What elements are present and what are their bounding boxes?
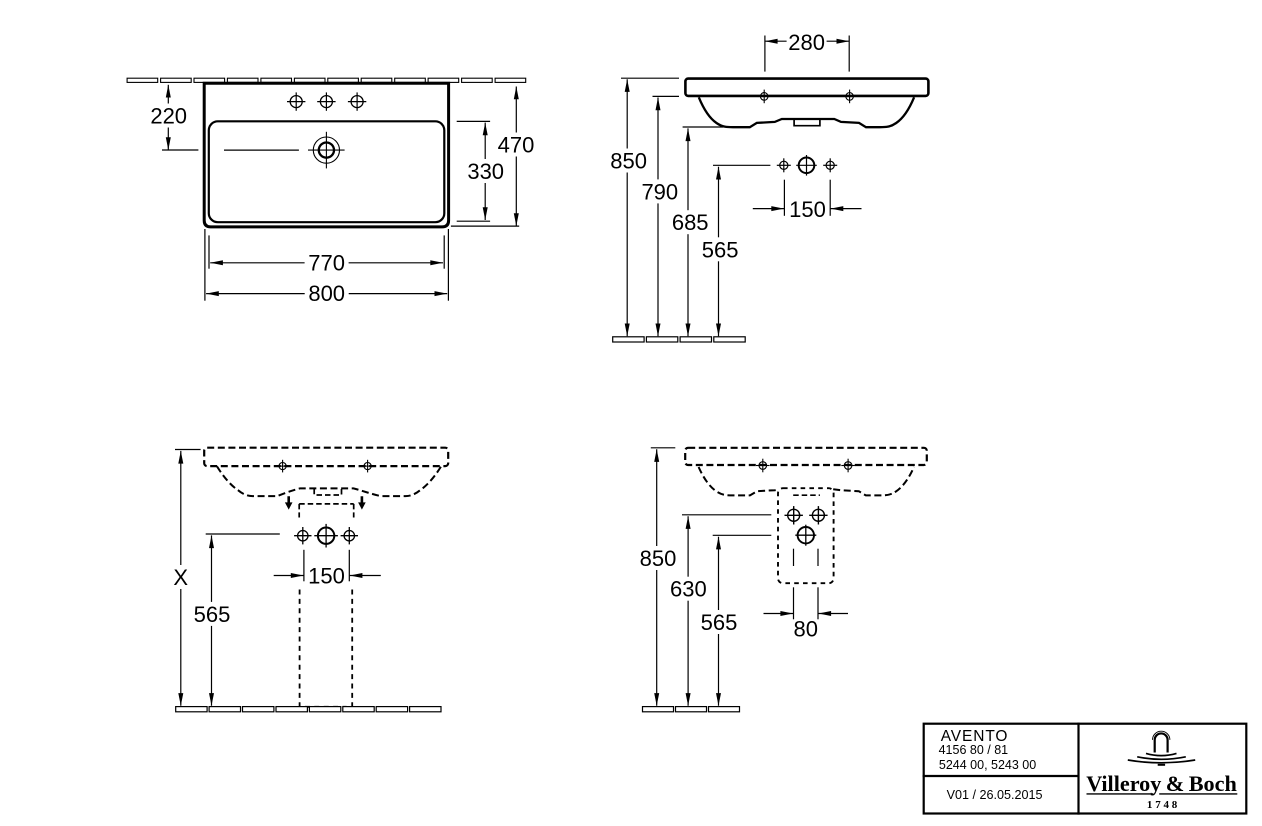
wall hatch tiles (plan view) <box>127 78 526 82</box>
svg-text:630: 630 <box>670 577 707 602</box>
siphon supply hole right <box>809 506 827 524</box>
svg-text:150: 150 <box>789 197 826 222</box>
supply hole left (side view) <box>777 158 791 172</box>
svg-text:470: 470 <box>498 133 535 158</box>
logo faucet icon <box>1153 731 1170 752</box>
siphon cover dashed <box>778 488 834 583</box>
dimension 80 <box>764 549 849 642</box>
svg-text:Villeroy & Boch: Villeroy & Boch <box>1086 771 1237 796</box>
svg-text:770: 770 <box>308 250 345 275</box>
svg-text:X: X <box>173 565 188 590</box>
wall fixing hole right (siphon view) <box>841 459 855 473</box>
floor hatch tiles (side view) <box>613 337 746 342</box>
drain pipe hole (side view) <box>796 155 817 176</box>
svg-text:280: 280 <box>788 30 825 55</box>
wall fixing hole right (side view) <box>843 90 857 104</box>
bowl underside dashed (siphon view) <box>699 467 914 495</box>
dimension 770 <box>209 235 444 275</box>
logo water ripples <box>1128 753 1195 764</box>
pedestal body dashed <box>300 590 353 708</box>
svg-text:4156 80 / 81: 4156 80 / 81 <box>939 743 1009 757</box>
mounting arrow left <box>285 496 293 509</box>
dimension 790 <box>641 96 679 336</box>
svg-text:150: 150 <box>308 564 345 589</box>
dimension 150 (pedestal view) <box>274 550 381 589</box>
dimension 685 <box>672 127 724 336</box>
pedestal drain hole <box>314 524 338 548</box>
title block frame <box>924 724 1247 814</box>
wall fixing hole right (pedestal view) <box>361 460 374 473</box>
drain boss dashed (pedestal view) <box>314 489 341 495</box>
dimension 565 (side view) <box>702 165 771 336</box>
dimension 280 <box>765 30 849 72</box>
title block horizontal divider <box>923 775 1079 777</box>
svg-text:850: 850 <box>640 546 677 571</box>
overflow level line <box>224 149 299 151</box>
svg-text:850: 850 <box>610 149 647 174</box>
svg-text:790: 790 <box>641 179 678 204</box>
drain hole <box>308 132 345 169</box>
dimension 220 <box>150 85 198 150</box>
siphon supply hole left <box>785 506 803 524</box>
washbasin outer outline (plan view) <box>204 83 448 227</box>
supply hole right (side view) <box>823 158 837 172</box>
wall fixing hole left (siphon view) <box>756 459 770 473</box>
dimension 850 (side view) <box>610 78 679 336</box>
title block vertical divider <box>1077 723 1079 815</box>
dimension 565 (siphon view) <box>701 535 772 706</box>
pedestal top dashed <box>299 504 354 518</box>
dimension 150 (side view) <box>753 180 862 222</box>
svg-text:800: 800 <box>308 281 345 306</box>
dimension 800 <box>205 229 449 306</box>
drain boss (side view) <box>794 120 820 126</box>
siphon drain hole <box>795 525 816 546</box>
pedestal supply hole right <box>341 527 358 544</box>
rim outline dashed (pedestal view) <box>204 448 448 466</box>
dimension 630 <box>670 515 771 706</box>
bowl underside profile (side view) <box>699 97 914 127</box>
svg-text:1748: 1748 <box>1147 799 1180 811</box>
floor hatch tiles (siphon view) <box>643 707 740 712</box>
rim outline dashed (siphon view) <box>685 448 927 465</box>
svg-text:330: 330 <box>467 159 504 184</box>
svg-text:80: 80 <box>794 617 818 642</box>
drain boss dashed (siphon view) <box>793 494 820 496</box>
dimension 470 <box>451 87 535 227</box>
bowl underside dashed (pedestal view) <box>217 466 441 496</box>
faucet hole right <box>348 92 366 110</box>
mounting arrow right <box>358 496 366 509</box>
dimension 565 (pedestal view) <box>194 534 280 706</box>
dimension X <box>170 450 201 706</box>
faucet hole centre <box>317 92 335 110</box>
washbasin inner rim (plan view) <box>209 121 444 222</box>
dimension 850 (siphon view) <box>640 448 677 706</box>
pedestal supply hole left <box>294 527 311 544</box>
rim profile (side view) <box>685 79 928 96</box>
svg-text:565: 565 <box>701 610 738 635</box>
floor hatch tiles (pedestal view) <box>176 707 441 712</box>
svg-text:565: 565 <box>702 237 739 262</box>
logo underline <box>1087 793 1238 795</box>
svg-text:220: 220 <box>150 104 187 129</box>
svg-text:V01 / 26.05.2015: V01 / 26.05.2015 <box>947 788 1043 802</box>
dimension 330 <box>457 121 505 221</box>
svg-text:565: 565 <box>194 602 231 627</box>
wall fixing hole left (pedestal view) <box>276 460 289 473</box>
faucet hole left <box>287 92 305 110</box>
wall fixing hole left (side view) <box>757 90 771 104</box>
svg-text:685: 685 <box>672 210 709 235</box>
svg-text:5244 00, 5243 00: 5244 00, 5243 00 <box>939 758 1036 772</box>
